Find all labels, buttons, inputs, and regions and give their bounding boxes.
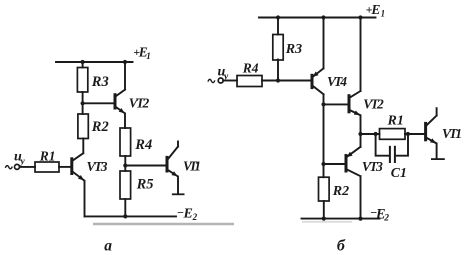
svg-text:R5: R5 (136, 176, 154, 192)
svg-text:E: E (370, 2, 380, 17)
svg-text:E: E (183, 206, 193, 221)
svg-text:y: y (223, 72, 229, 82)
svg-text:1: 1 (381, 8, 386, 18)
svg-text:R3: R3 (285, 42, 302, 57)
svg-text:2: 2 (383, 213, 389, 223)
svg-text:C1: C1 (391, 166, 407, 181)
svg-text:VT3: VT3 (87, 159, 108, 174)
svg-text:VT3: VT3 (362, 159, 383, 174)
svg-text:R1: R1 (39, 149, 56, 164)
svg-text:1: 1 (146, 51, 151, 61)
svg-text:y: y (20, 157, 26, 167)
svg-text:VT1: VT1 (442, 126, 462, 141)
svg-text:R1: R1 (387, 114, 404, 129)
svg-text:R2: R2 (91, 119, 109, 135)
svg-text:R2: R2 (332, 184, 349, 199)
svg-text:a: a (104, 238, 112, 255)
svg-text:VT2: VT2 (129, 95, 150, 110)
svg-text:VT2: VT2 (363, 97, 384, 112)
svg-text:R4: R4 (134, 137, 152, 153)
svg-text:VT1: VT1 (183, 159, 201, 174)
svg-text:2: 2 (192, 212, 198, 222)
svg-text:б: б (337, 238, 346, 255)
svg-text:R3: R3 (91, 74, 109, 90)
svg-text:VT4: VT4 (327, 74, 347, 89)
svg-text:R4: R4 (242, 60, 259, 75)
